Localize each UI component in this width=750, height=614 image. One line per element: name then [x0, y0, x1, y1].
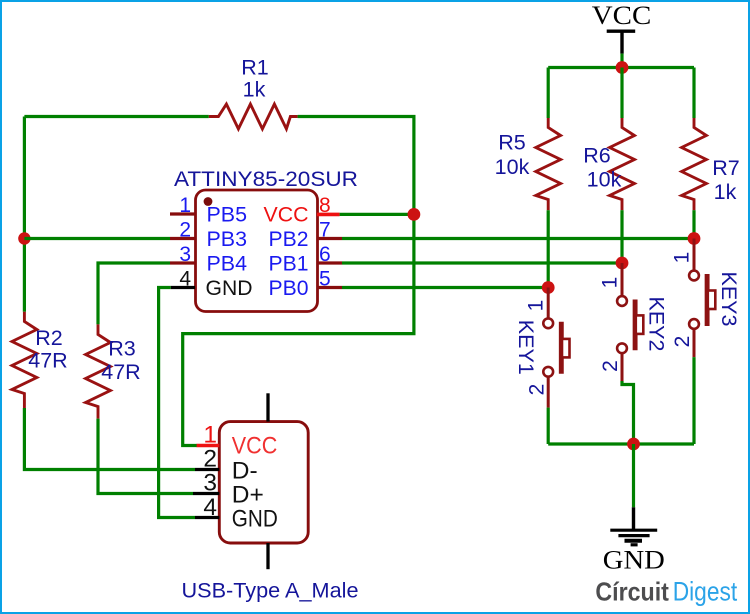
wire: GND stem — [632, 444, 635, 507]
svg-text:1: 1 — [179, 194, 191, 217]
svg-text:Digest: Digest — [673, 577, 738, 607]
svg-text:3: 3 — [179, 243, 191, 266]
resistor R1 — [209, 104, 298, 129]
svg-text:GND: GND — [232, 506, 278, 533]
svg-text:1k: 1k — [714, 180, 737, 204]
svg-text:2: 2 — [599, 360, 622, 372]
wire: rail to R6 top — [620, 68, 623, 119]
wire: KEY2 bottom jog to GND node — [622, 381, 634, 444]
resistor R7 — [682, 118, 707, 210]
wire: pin7 PB2 to KEY3 node — [342, 237, 694, 240]
logo CircuitDigest — [595, 577, 737, 607]
pin 1 stub PB5 — [170, 212, 195, 215]
svg-text:4: 4 — [179, 268, 191, 291]
svg-text:R5: R5 — [498, 131, 526, 155]
pin 7 stub PB2 — [317, 237, 342, 240]
wire: rail to R5 top — [547, 68, 550, 119]
svg-text:R2: R2 — [35, 326, 62, 350]
pin 5 stub PB0 — [317, 286, 342, 289]
junction node KEY1/R5/PB0 — [542, 281, 555, 294]
svg-text:4: 4 — [203, 494, 217, 521]
wire: left vertical from top rail to R2 — [23, 117, 26, 312]
op-amp U1 ATTINY85-20SUR body — [196, 190, 318, 312]
svg-text:2: 2 — [179, 219, 191, 242]
wire: PB3 pin2 horizontal — [24, 237, 170, 240]
svg-text:KEY3: KEY3 — [717, 272, 741, 327]
switch KEY1 — [543, 288, 569, 408]
svg-text:USB-Type A_Male: USB-Type A_Male — [182, 579, 359, 603]
pin 6 stub PB1 — [317, 261, 342, 264]
resistor R2 — [12, 312, 37, 408]
junction node pin2/PB3 — [18, 232, 30, 244]
svg-text:47R: 47R — [28, 349, 67, 373]
wire: VCC stem — [620, 54, 623, 68]
svg-text:R1: R1 — [241, 56, 268, 80]
svg-text:10k: 10k — [495, 155, 530, 179]
svg-text:GND: GND — [206, 277, 253, 300]
switch KEY3 — [689, 239, 715, 358]
ground symbol — [603, 507, 665, 574]
wire: R6 bottom to KEY2 node — [620, 210, 623, 263]
wire: bottom rail — [548, 442, 694, 445]
svg-text:GND: GND — [603, 545, 665, 575]
wire: KEY1 bottom — [547, 408, 550, 444]
svg-text:PB2: PB2 — [269, 228, 309, 251]
pin 8 stub VCC (red) — [317, 213, 340, 217]
pin 3 stub PB4 — [170, 261, 195, 264]
svg-text:3: 3 — [203, 470, 217, 497]
svg-text:2: 2 — [671, 336, 694, 348]
wire: R3 bottom to USB pin3 — [98, 419, 193, 494]
wire: R5 bottom to KEY1 node — [547, 210, 550, 287]
svg-text:2: 2 — [203, 446, 217, 473]
junction node VCC rail — [616, 61, 629, 74]
resistor R3 — [86, 324, 111, 418]
svg-text:7: 7 — [319, 219, 331, 242]
junction node KEY2/R6/PB1 — [616, 257, 629, 270]
pin 1 stub VCC (red) — [197, 444, 220, 448]
svg-text:R6: R6 — [583, 144, 611, 168]
junction node GND rail — [627, 438, 640, 451]
junction node KEY3/R7/PB2 — [688, 232, 701, 245]
wire: pin5 PB0 to KEY1 node — [342, 286, 548, 289]
svg-text:PB1: PB1 — [269, 253, 309, 276]
svg-text:PB4: PB4 — [207, 253, 248, 276]
resistor R5 — [536, 118, 561, 210]
wire: R2 bottom to USB pin2 — [24, 408, 195, 470]
svg-text:D+: D+ — [232, 482, 264, 509]
svg-text:1: 1 — [525, 300, 548, 312]
wire: R7 bottom to KEY3 node — [692, 210, 695, 238]
wire: rail to R7 top — [692, 68, 695, 119]
svg-text:47R: 47R — [101, 360, 140, 384]
svg-text:PB5: PB5 — [207, 204, 248, 227]
pin 3 stub D+ (black) — [193, 492, 219, 495]
pin-1 marker dot — [204, 197, 213, 206]
pin 2 stub PB3 — [170, 237, 195, 240]
svg-text:D-: D- — [232, 458, 258, 485]
pin 4 stub GND (black) — [171, 286, 195, 289]
switch KEY2 — [617, 263, 643, 381]
svg-text:2: 2 — [525, 384, 548, 396]
power symbol VCC — [592, 0, 652, 54]
wire: KEY3 bottom — [692, 357, 695, 444]
svg-text:VCC: VCC — [592, 0, 652, 30]
svg-text:ATTINY85-20SUR: ATTINY85-20SUR — [174, 168, 358, 191]
svg-text:5: 5 — [319, 268, 331, 291]
connector J1 USB-Type A_Male body — [219, 422, 308, 543]
pin 4 stub GND (black) — [195, 516, 219, 519]
wire: R1 right to vertical — [298, 117, 414, 215]
USB top stub — [266, 393, 269, 421]
wire: VCC top rail — [548, 66, 694, 69]
pin 2 stub D- (black) — [195, 468, 219, 471]
svg-text:10k: 10k — [587, 168, 622, 192]
svg-text:VCC: VCC — [264, 204, 309, 227]
svg-text:KEY2: KEY2 — [645, 297, 669, 352]
wire: top rail left segment to R1 — [24, 115, 208, 118]
svg-text:8: 8 — [319, 194, 331, 217]
svg-text:1: 1 — [599, 277, 622, 289]
svg-text:PB0: PB0 — [269, 277, 309, 300]
svg-text:6: 6 — [319, 243, 331, 266]
svg-text:R7: R7 — [712, 156, 739, 180]
svg-text:1: 1 — [203, 422, 217, 449]
wire: VCC node down to USB pin1 elbow — [183, 214, 414, 445]
junction node VCC pin8 — [408, 208, 421, 221]
USB bottom stub — [266, 543, 269, 569]
wire: PB4 pin3 to R3 top — [98, 263, 170, 324]
svg-text:VCC: VCC — [232, 432, 277, 459]
svg-text:PB3: PB3 — [207, 228, 248, 251]
svg-text:1k: 1k — [243, 78, 266, 102]
svg-text:R3: R3 — [108, 337, 136, 361]
resistor R6 — [610, 118, 635, 210]
svg-text:Círcuit: Círcuit — [595, 577, 669, 607]
svg-text:KEY1: KEY1 — [514, 320, 538, 375]
wire: pin8 to VCC node — [340, 213, 414, 216]
svg-text:1: 1 — [671, 252, 694, 264]
wire: GND pin4 to USB pin4 — [159, 288, 195, 518]
wire: pin6 PB1 to KEY2 node — [342, 261, 622, 264]
